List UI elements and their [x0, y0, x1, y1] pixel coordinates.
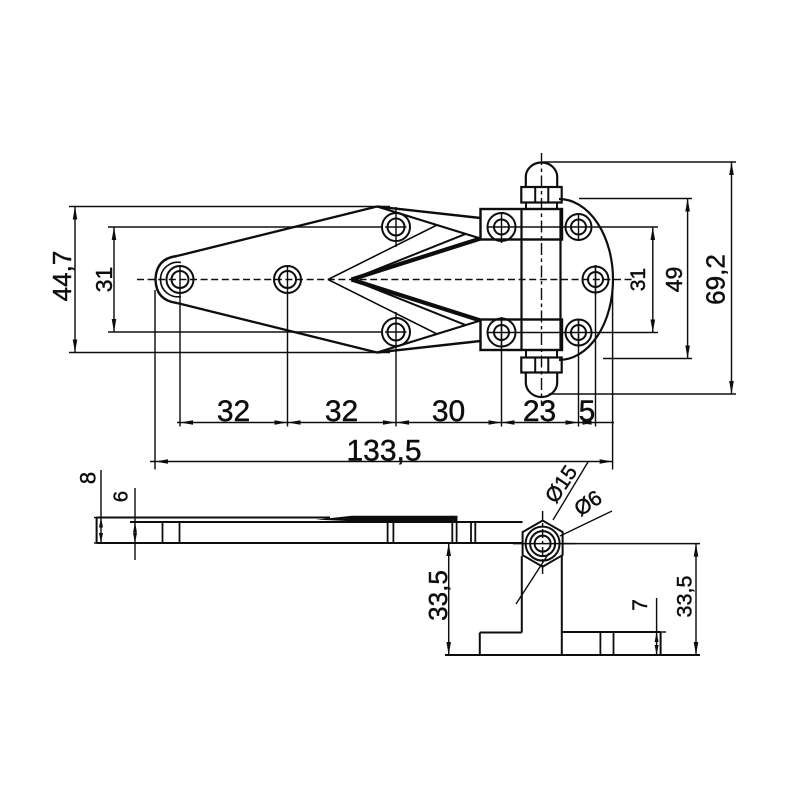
svg-text:31: 31: [627, 268, 650, 291]
svg-text:5: 5: [579, 395, 596, 428]
svg-text:23: 23: [523, 395, 556, 428]
svg-text:7: 7: [629, 599, 652, 611]
svg-text:8: 8: [76, 472, 101, 484]
svg-text:133,5: 133,5: [346, 435, 421, 468]
svg-text:6: 6: [111, 491, 133, 502]
svg-text:32: 32: [325, 395, 358, 428]
svg-text:33,5: 33,5: [423, 570, 453, 621]
svg-text:69,2: 69,2: [701, 254, 731, 305]
svg-text:33,5: 33,5: [673, 576, 697, 618]
svg-text:44,7: 44,7: [47, 251, 77, 302]
svg-text:32: 32: [217, 395, 250, 428]
svg-text:30: 30: [432, 395, 465, 428]
svg-text:49: 49: [661, 267, 687, 293]
svg-text:31: 31: [91, 267, 117, 293]
